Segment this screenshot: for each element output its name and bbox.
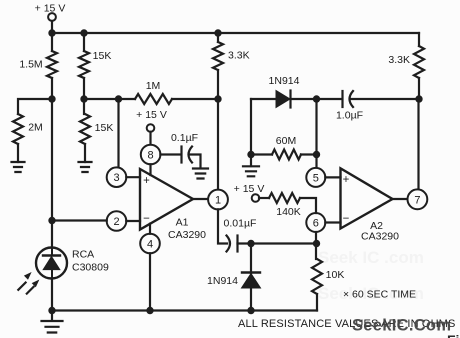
pin 2 (107, 211, 127, 231)
resistor R 10K (312, 259, 344, 311)
resistor R 60M (272, 135, 301, 160)
wire node to pin5 (315, 99, 317, 168)
svg-text:0.01µF: 0.01µF (224, 218, 257, 230)
op-amp U A1 CA3290 (140, 169, 206, 241)
svg-text:3.3K: 3.3K (228, 50, 250, 62)
node 60M right (313, 151, 320, 158)
wire pin3 to +in (126, 176, 140, 178)
svg-text:−: − (343, 213, 350, 225)
wire pin7 rise (417, 99, 419, 190)
svg-text:15K: 15K (95, 122, 114, 134)
node photodiode bottom (48, 307, 55, 314)
pin 7 (408, 189, 428, 209)
node pin3 drop (115, 95, 122, 102)
wire pin8 to triangle (149, 164, 151, 175)
wire photodiode leads (51, 220, 53, 311)
resistor R 2M (13, 114, 43, 162)
wire pin6 to -in (325, 221, 340, 223)
svg-text:1M: 1M (146, 80, 161, 92)
wire pin4 down (149, 253, 151, 310)
wire 3.3K to pin1 (217, 99, 219, 190)
wire apex to pin1 (193, 198, 208, 200)
ground 0.1uF (193, 169, 208, 179)
power +15V A2 terminal (234, 183, 265, 202)
svg-text:A1: A1 (176, 217, 189, 229)
wire pin1 down (218, 209, 227, 243)
svg-text:2M: 2M (28, 122, 43, 134)
node 15K top (80, 29, 87, 36)
node diode out (313, 95, 320, 102)
capacitor C 0.1uF (171, 132, 198, 163)
node 60M left (247, 151, 254, 158)
wire pin8 to cap (160, 153, 181, 155)
svg-text:1: 1 (215, 195, 221, 207)
wire 60M right lead (301, 153, 317, 155)
capacitor C 1.0uF (336, 91, 363, 122)
wire pin6 down (315, 232, 317, 259)
svg-text:CA3290: CA3290 (168, 229, 206, 241)
ground 15K (79, 162, 92, 172)
light arrow 1 (18, 272, 31, 290)
wire cap to junction (238, 242, 317, 244)
svg-text:SeekIC.Com: SeekIC.Com (352, 317, 451, 335)
ground 2M (12, 162, 25, 172)
wire diode anode drop (250, 99, 252, 155)
wire 1M row (84, 98, 218, 100)
node pin4 bottom (146, 307, 153, 314)
wire triangle to pin4 (149, 224, 151, 234)
svg-text:4: 4 (147, 239, 153, 251)
pin 3 (107, 167, 127, 187)
svg-text:60M: 60M (276, 135, 296, 147)
wire pin3 drop (117, 99, 119, 168)
svg-text:8: 8 (148, 150, 154, 162)
node photodiode top (48, 217, 55, 224)
node 3.3K-left top (214, 29, 221, 36)
pin 1 (208, 190, 228, 210)
svg-text:+: + (143, 175, 150, 187)
wire (51, 21, 53, 33)
svg-text:1N914: 1N914 (269, 75, 300, 87)
resistor R 15K upper (79, 33, 111, 99)
wire 140K to pin6 (300, 198, 316, 213)
resistor R 1.5M (19, 33, 57, 99)
wire photodiode to pin2 (52, 219, 107, 221)
ground photodiode (42, 321, 63, 333)
wire diode row left (251, 98, 276, 100)
wire left column down (51, 99, 53, 220)
wire apex to pin7 (393, 198, 408, 200)
op-amp U A2 CA3290 (341, 168, 400, 242)
wire 60M stem (250, 155, 252, 167)
power +15V terminal (35, 3, 66, 21)
node B junction 15K (80, 95, 87, 102)
light arrow 2 (27, 280, 40, 294)
resistor R 140K (269, 193, 301, 218)
svg-text:Seek IC .com: Seek IC .com (318, 248, 424, 267)
svg-text:3.3K: 3.3K (388, 54, 410, 66)
svg-text:10K: 10K (326, 269, 345, 281)
svg-text:15K: 15K (93, 50, 112, 62)
svg-text:C30809: C30809 (72, 262, 109, 274)
wire top rail (52, 32, 419, 34)
node A junction 1.5M/2M (48, 95, 55, 102)
node 0.01uF junction (247, 240, 254, 247)
svg-text:1N914: 1N914 (207, 275, 238, 287)
node 3.3K bottom (214, 95, 221, 102)
wire cap to 3.3K node (351, 98, 420, 100)
svg-text:3: 3 (113, 172, 119, 184)
resistor R 3.3K right (388, 46, 424, 99)
node 3.3K right bottom (415, 95, 422, 102)
wire top rail corner (418, 33, 420, 46)
svg-text:× 60 SEC TIME: × 60 SEC TIME (343, 289, 416, 301)
pin 8 (141, 145, 161, 165)
svg-text:1.5M: 1.5M (19, 59, 42, 71)
wire bottom rail (52, 309, 317, 311)
resistor R 1M (135, 80, 172, 104)
svg-text:1.0µF: 1.0µF (336, 110, 363, 122)
diode D 1N914 bottom (207, 244, 260, 311)
resistor R 15K lower (80, 99, 113, 162)
wire terminal to 140K (259, 197, 269, 199)
resistor R 3.3K left (213, 33, 250, 99)
svg-text:7: 7 (414, 194, 420, 206)
svg-text:0.1µF: 0.1µF (171, 132, 198, 144)
wire to 2M (18, 99, 52, 114)
svg-text:+ 15 V: + 15 V (136, 109, 167, 121)
power +15V A1 terminal (136, 109, 167, 132)
svg-text:140K: 140K (276, 206, 301, 218)
svg-text:5: 5 (313, 172, 319, 184)
wire pin2 to -in (126, 220, 140, 222)
wire diode to node (291, 98, 317, 100)
photodiode D RCA C30809 (36, 248, 109, 279)
svg-text:+ 15 V: + 15 V (234, 183, 265, 195)
wire ground stem (51, 311, 53, 321)
node cap junction right (313, 240, 320, 247)
svg-text:6: 6 (313, 218, 319, 230)
node diode bottom (247, 307, 254, 314)
svg-text:RCA: RCA (72, 249, 94, 261)
diode D 1N914 top (269, 75, 300, 108)
wire terminal to pin8 (149, 132, 151, 145)
wire pin5 to +in (325, 176, 340, 178)
svg-text:Fig.: Fig. (447, 332, 460, 338)
wire node to cap 1.0uF (317, 98, 343, 100)
svg-text:CA3290: CA3290 (361, 230, 399, 242)
svg-text:2: 2 (113, 216, 119, 228)
wire cap to ground (190, 155, 201, 169)
capacitor C 0.01uF (224, 218, 257, 252)
pin 6 (306, 213, 325, 232)
pin 4 (140, 234, 160, 254)
node top-left (48, 29, 55, 36)
svg-text:+: + (343, 174, 350, 186)
pin 5 (306, 168, 325, 187)
ground 60M (243, 166, 259, 176)
wire 60M left lead (251, 153, 272, 155)
